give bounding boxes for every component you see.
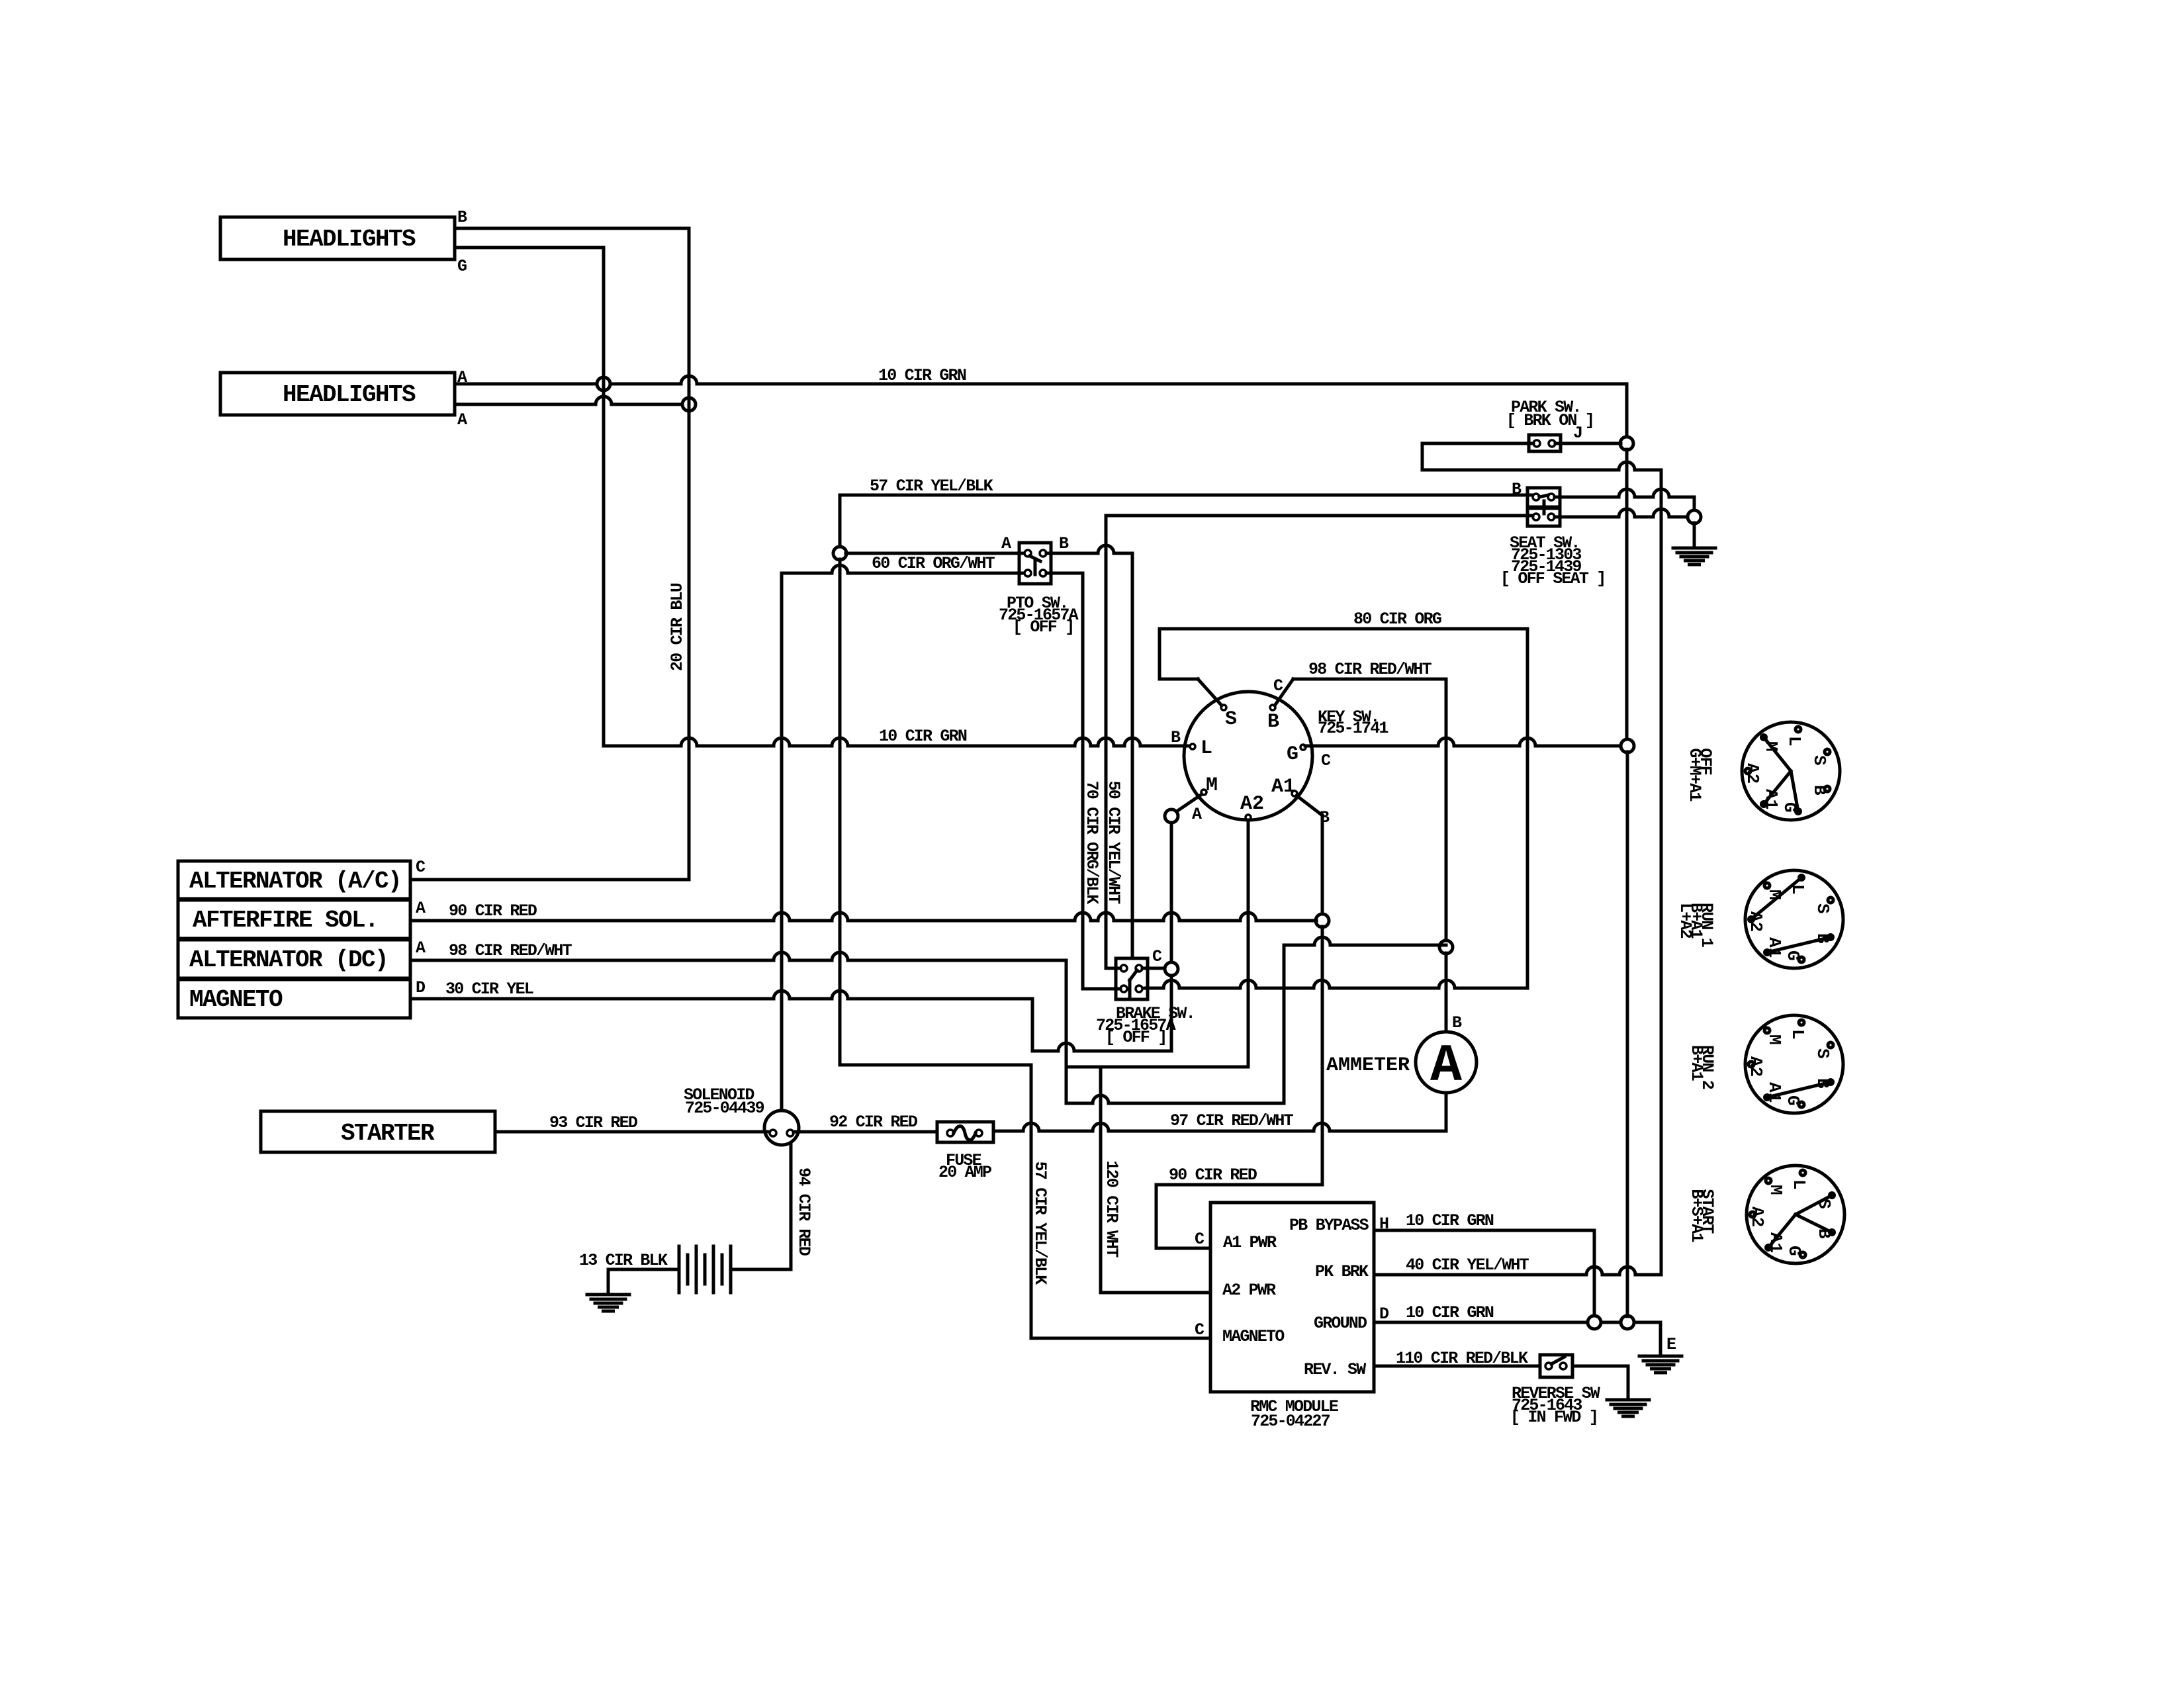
component box: ALTERNATOR (A/C) bbox=[178, 861, 410, 899]
svg-text:MAGNETO: MAGNETO bbox=[1222, 1327, 1285, 1346]
svg-text:725-04439: 725-04439 bbox=[685, 1099, 764, 1118]
svg-text:60 CIR ORG/WHT: 60 CIR ORG/WHT bbox=[872, 554, 995, 573]
svg-text:C: C bbox=[416, 858, 426, 877]
ground at seat switch bbox=[1673, 547, 1715, 550]
svg-text:B: B bbox=[1813, 933, 1833, 944]
svg-text:HEADLIGHTS: HEADLIGHTS bbox=[283, 381, 416, 408]
svg-text:10 CIR GRN: 10 CIR GRN bbox=[1406, 1303, 1494, 1322]
svg-text:50 CIR YEL/WHT: 50 CIR YEL/WHT bbox=[1104, 781, 1123, 905]
svg-text:S: S bbox=[1225, 708, 1237, 731]
wire vertical 30 leg up to node C bbox=[1170, 976, 1173, 1051]
svg-text:A: A bbox=[416, 938, 426, 958]
pin B of key switch bbox=[1270, 705, 1275, 710]
svg-text:C: C bbox=[1195, 1230, 1205, 1249]
label START position bbox=[1687, 1189, 1717, 1242]
svg-text:B: B bbox=[1813, 1078, 1833, 1089]
wire key A2 drop bbox=[1247, 820, 1250, 1067]
wire seat switch lower output bbox=[1555, 509, 1688, 517]
wire 80 CIR ORG run bbox=[1160, 627, 1527, 631]
wire 10 CIR GRN top run bbox=[455, 376, 1627, 384]
switch SEAT SW. glyph bbox=[1527, 488, 1560, 507]
svg-text:A1: A1 bbox=[1764, 937, 1784, 958]
key position diagram OFF bbox=[1742, 722, 1840, 820]
svg-text:L: L bbox=[1789, 1179, 1809, 1190]
svg-text:B+S+A1: B+S+A1 bbox=[1687, 1189, 1706, 1242]
wire park switch left leg bbox=[1422, 443, 1533, 470]
node park switch junction bbox=[1620, 437, 1633, 450]
component box: HEADLIGHTS (lower) bbox=[220, 373, 455, 415]
svg-text:B: B bbox=[1814, 1228, 1834, 1239]
wire PTO B output bbox=[1046, 545, 1132, 553]
wire vertical 20 CIR BLU bbox=[688, 228, 691, 880]
svg-text:B: B bbox=[457, 208, 467, 227]
component box RMC MODULE 725-04227 bbox=[1210, 1203, 1374, 1392]
svg-text:120 CIR WHT: 120 CIR WHT bbox=[1102, 1160, 1121, 1257]
wire 98 CIR RED/WHT run bbox=[410, 952, 1066, 960]
wire brake bottom-left pin west leg bbox=[1083, 573, 1120, 989]
svg-text:M: M bbox=[1766, 1185, 1786, 1195]
wire key B diagonal bbox=[1275, 679, 1293, 706]
node key B bus / alternator DC bbox=[1439, 940, 1453, 954]
wire battery positive lead bbox=[731, 1268, 791, 1271]
svg-text:70 CIR ORG/BLK: 70 CIR ORG/BLK bbox=[1082, 781, 1101, 905]
ground at reverse switch bbox=[1607, 1398, 1649, 1402]
node PTO input junction bbox=[833, 547, 846, 560]
svg-text:L+A2: L+A2 bbox=[1676, 903, 1695, 938]
wire key S diagonal bbox=[1198, 679, 1222, 706]
wire brake top-right pin to node C bbox=[1142, 967, 1165, 970]
svg-text:GROUND: GROUND bbox=[1314, 1314, 1367, 1333]
svg-text:C: C bbox=[1273, 676, 1283, 696]
svg-text:ALTERNATOR (A/C): ALTERNATOR (A/C) bbox=[189, 868, 401, 895]
svg-text:20 CIR BLU: 20 CIR BLU bbox=[668, 583, 687, 671]
component solenoid circle SOLENOID 725-04439 bbox=[764, 1111, 799, 1145]
wire brake NO to 80 riser (start interlock) bbox=[1145, 980, 1527, 988]
svg-text:L: L bbox=[1788, 884, 1807, 895]
node H junction on ground wire bbox=[1588, 1316, 1601, 1329]
svg-text:D: D bbox=[416, 978, 426, 997]
svg-text:A: A bbox=[416, 899, 426, 918]
wire vertical node A to brake C bbox=[1170, 823, 1173, 962]
node 10 CIR GRN ground bus junction bbox=[1621, 739, 1634, 753]
svg-text:92 CIR RED: 92 CIR RED bbox=[829, 1113, 918, 1132]
wire vertical ammeter bottom lead bbox=[1445, 1093, 1448, 1131]
wire vertical 30 drop bbox=[1031, 999, 1034, 1051]
svg-text:L: L bbox=[1201, 737, 1212, 760]
svg-text:B: B bbox=[1809, 785, 1829, 796]
svg-text:C: C bbox=[1195, 1320, 1205, 1340]
switch PTO SW. glyph bbox=[1019, 543, 1051, 584]
wire vertical 50 CIR YEL/WHT bbox=[1105, 516, 1108, 968]
svg-text:725-1741: 725-1741 bbox=[1318, 719, 1388, 738]
wire vertical park to 40 CIR YEL/WHT bbox=[1660, 470, 1663, 1275]
key position diagram RUN 2 bbox=[1745, 1015, 1843, 1113]
svg-text:G: G bbox=[1784, 1246, 1804, 1256]
svg-text:M: M bbox=[1206, 774, 1218, 797]
wire 120 into RMC A2 PWR pin bbox=[1101, 1291, 1210, 1295]
svg-text:M: M bbox=[1761, 741, 1781, 752]
svg-text:B: B bbox=[1512, 480, 1522, 499]
wire vertical A1 PWR drop bbox=[1155, 1185, 1158, 1248]
svg-text:REV. SW: REV. SW bbox=[1304, 1360, 1366, 1379]
svg-text:C: C bbox=[1321, 751, 1331, 770]
svg-text:98 CIR RED/WHT: 98 CIR RED/WHT bbox=[1308, 660, 1432, 679]
component box: ALTERNATOR (DC) bbox=[178, 940, 410, 978]
label 94 CIR RED (rotated) bbox=[794, 1167, 813, 1256]
svg-text:B: B bbox=[1059, 534, 1069, 553]
svg-text:A1: A1 bbox=[1764, 1082, 1784, 1103]
wire seat upper corner down bbox=[1693, 497, 1696, 511]
node A below key M bbox=[1165, 809, 1178, 823]
ground E symbol bbox=[1639, 1355, 1682, 1358]
svg-text:B: B bbox=[1171, 728, 1181, 747]
svg-text:B+A1: B+A1 bbox=[1687, 1045, 1706, 1081]
svg-text:A: A bbox=[457, 410, 467, 430]
wire park switch right leg bbox=[1555, 442, 1621, 445]
svg-text:MAGNETO: MAGNETO bbox=[189, 986, 283, 1013]
svg-text:A2: A2 bbox=[1240, 793, 1264, 815]
wire headlights lower-A to node bbox=[455, 396, 689, 404]
wire vertical headlights-G to 10 CIR GRN lower run bbox=[602, 248, 606, 746]
svg-text:G: G bbox=[1287, 743, 1298, 766]
svg-text:110 CIR RED/BLK: 110 CIR RED/BLK bbox=[1396, 1349, 1528, 1368]
wire 97 CIR RED/WHT fuse to ammeter bbox=[993, 1123, 1446, 1131]
svg-text:90 CIR RED: 90 CIR RED bbox=[449, 901, 537, 921]
component ammeter circle bbox=[1416, 1032, 1477, 1093]
svg-text:H: H bbox=[1379, 1214, 1388, 1234]
svg-text:[ OFF ]: [ OFF ] bbox=[1105, 1028, 1166, 1047]
wire REV. SW 110 CIR RED/BLK bbox=[1374, 1365, 1540, 1368]
wire 10 CIR GRN top corner down bbox=[1625, 384, 1629, 437]
wire 60 CIR ORG/WHT upper (node to PTO A) bbox=[846, 552, 1024, 555]
pin A1 of key switch bbox=[1292, 791, 1297, 796]
svg-text:90 CIR RED: 90 CIR RED bbox=[1169, 1165, 1257, 1185]
svg-text:57 CIR YEL/BLK: 57 CIR YEL/BLK bbox=[1030, 1162, 1050, 1285]
svg-text:A2: A2 bbox=[1747, 1207, 1767, 1227]
wire key S riser west+up bbox=[1160, 629, 1198, 679]
svg-text:G: G bbox=[1783, 950, 1803, 961]
svg-text:PB BYPASS: PB BYPASS bbox=[1289, 1216, 1369, 1235]
wire PK BRK 40 CIR YEL/WHT bbox=[1374, 1267, 1661, 1275]
wire 50 CIR YEL/WHT seat run bbox=[1106, 514, 1533, 518]
svg-text:S: S bbox=[1814, 1199, 1834, 1209]
svg-text:13 CIR BLK: 13 CIR BLK bbox=[579, 1251, 668, 1270]
wire seat ground drop bbox=[1693, 523, 1696, 548]
pin G of key switch bbox=[1300, 745, 1306, 750]
pin A2 of key switch bbox=[1246, 815, 1251, 820]
svg-text:A2: A2 bbox=[1743, 763, 1762, 784]
wire 93 CIR RED starter to solenoid bbox=[495, 1130, 770, 1134]
wire ground E drop bbox=[1659, 1322, 1662, 1356]
wire vertical 94 CIR RED bbox=[790, 1145, 793, 1269]
wire GROUND 10 CIR GRN run bbox=[1374, 1321, 1661, 1324]
label OFF position bbox=[1685, 748, 1715, 801]
wire vertical below PTO node (to brake area) bbox=[839, 559, 842, 1065]
wire 98 CIR RED/WHT key B run bbox=[1293, 678, 1446, 681]
wire PB BYPASS 10 CIR GRN bbox=[1374, 1230, 1594, 1316]
svg-text:[ IN FWD ]: [ IN FWD ] bbox=[1510, 1408, 1598, 1427]
wire A2 leg west bbox=[1066, 1066, 1248, 1069]
svg-text:A: A bbox=[1192, 805, 1202, 824]
component box: MAGNETO bbox=[178, 980, 410, 1018]
component battery bbox=[678, 1246, 681, 1293]
wire 60 CIR ORG/WHT lower (solenoid riser to PTO) bbox=[782, 565, 1024, 573]
switch REVERSE SW glyph bbox=[1540, 1355, 1572, 1377]
pin L of key switch bbox=[1190, 744, 1195, 749]
svg-text:S: S bbox=[1813, 1048, 1833, 1059]
svg-text:A1: A1 bbox=[1761, 789, 1781, 809]
wire vertical 57 CIR YEL/BLK to RMC bbox=[1030, 1065, 1033, 1338]
svg-text:S: S bbox=[1809, 755, 1829, 766]
pin S of key switch bbox=[1221, 705, 1226, 710]
svg-text:L: L bbox=[1784, 736, 1804, 747]
label 50 CIR YEL/WHT (rotated) bbox=[1104, 781, 1123, 905]
node 90 CIR RED junction bbox=[1316, 914, 1329, 927]
svg-text:98 CIR RED/WHT: 98 CIR RED/WHT bbox=[449, 941, 572, 960]
node ground bus junction on ground wire bbox=[1621, 1316, 1634, 1329]
wire key G to ground bus bbox=[1305, 738, 1621, 746]
wire park switch lower run bbox=[1422, 462, 1661, 470]
svg-text:A1: A1 bbox=[1766, 1232, 1786, 1253]
wire vertical solenoid coil riser bbox=[780, 573, 784, 1111]
svg-text:S: S bbox=[1813, 903, 1833, 914]
svg-text:L: L bbox=[1788, 1029, 1807, 1040]
svg-text:93 CIR RED: 93 CIR RED bbox=[549, 1113, 638, 1132]
node C at brake switch bbox=[1165, 962, 1178, 976]
wire PTO bottom-right to 70 riser bbox=[1046, 572, 1083, 575]
component box: HEADLIGHTS (upper) bbox=[220, 217, 455, 259]
wire reverse switch to ground bbox=[1572, 1366, 1628, 1400]
wire 98 to node on key B bus bbox=[1309, 937, 1446, 945]
ground at battery bbox=[587, 1293, 629, 1297]
svg-text:J: J bbox=[1573, 424, 1582, 443]
wire vertical ground bus upper bbox=[1625, 449, 1629, 740]
svg-text:STARTER: STARTER bbox=[341, 1120, 435, 1147]
wire 90 CIR RED run bbox=[410, 913, 1316, 921]
svg-text:A1 PWR: A1 PWR bbox=[1223, 1233, 1277, 1252]
component key switch circle KEY SW. 725-1741 bbox=[1184, 692, 1312, 820]
label 120 CIR WHT (rotated) bbox=[1102, 1160, 1121, 1257]
wire headlights-G drop bbox=[455, 246, 604, 250]
wire alternator A/C C to 20 CIR BLU bbox=[410, 878, 689, 882]
component fuse FUSE 20 AMP bbox=[937, 1122, 993, 1142]
svg-text:E: E bbox=[1666, 1335, 1676, 1354]
label RUN 1 position bbox=[1676, 903, 1716, 947]
wire 13 CIR BLK battery negative lead bbox=[608, 1269, 679, 1295]
svg-text:G: G bbox=[457, 257, 467, 276]
label 57 CIR YEL/BLK vertical (rotated) bbox=[1030, 1162, 1050, 1285]
wire vertical PTO B drop (to brake lever) bbox=[1131, 553, 1134, 958]
svg-text:725-04227: 725-04227 bbox=[1251, 1412, 1330, 1431]
svg-text:A: A bbox=[1430, 1036, 1463, 1097]
svg-text:M: M bbox=[1764, 1034, 1784, 1045]
label 20 CIR BLU (rotated) bbox=[668, 583, 687, 671]
key position diagram START bbox=[1747, 1165, 1844, 1263]
wire vertical 80 CIR ORG drop bbox=[1526, 629, 1529, 987]
wire 98 east leg bbox=[1066, 1095, 1284, 1103]
wire brake top-left pin west bbox=[1106, 967, 1120, 970]
node seat ground junction bbox=[1688, 510, 1701, 524]
wire vertical key B bus bbox=[1445, 679, 1448, 941]
component box: AFTERFIRE SOL. bbox=[178, 900, 410, 938]
wire 92 CIR RED solenoid to fuse bbox=[794, 1130, 937, 1134]
component box: STARTER bbox=[261, 1111, 495, 1152]
wire 10 CIR GRN to key L bbox=[604, 738, 1189, 746]
svg-text:20 AMP: 20 AMP bbox=[938, 1163, 991, 1182]
svg-text:10 CIR GRN: 10 CIR GRN bbox=[878, 366, 966, 385]
svg-text:C: C bbox=[1152, 947, 1162, 966]
svg-text:PK BRK: PK BRK bbox=[1315, 1262, 1369, 1281]
wire vertical 120 CIR WHT bbox=[1099, 1067, 1103, 1293]
svg-text:57 CIR YEL/BLK: 57 CIR YEL/BLK bbox=[870, 477, 993, 496]
svg-text:G: G bbox=[1783, 1095, 1803, 1106]
svg-text:HEADLIGHTS: HEADLIGHTS bbox=[283, 226, 416, 253]
svg-text:94 CIR RED: 94 CIR RED bbox=[794, 1167, 813, 1256]
wire 90 CIR RED lower leg bbox=[1156, 1183, 1322, 1187]
wire headlights-B to 20 CIR BLU riser bbox=[455, 227, 688, 230]
wire 30 CIR YEL run bbox=[410, 991, 1032, 999]
wire vertical 57 drop to PTO node bbox=[839, 495, 842, 553]
key position diagram RUN 1 bbox=[1745, 870, 1843, 968]
label 70 CIR ORG/BLK (rotated) bbox=[1082, 781, 1101, 905]
wire 98 riser to key B bus bbox=[1284, 945, 1309, 1103]
svg-text:B: B bbox=[1267, 711, 1279, 733]
svg-text:[ OFF ]: [ OFF ] bbox=[1013, 617, 1073, 637]
svg-text:A2: A2 bbox=[1746, 1056, 1766, 1077]
wire 57 into RMC MAGNETO pin bbox=[1031, 1337, 1210, 1340]
svg-text:B: B bbox=[1452, 1013, 1462, 1032]
svg-text:AMMETER: AMMETER bbox=[1326, 1054, 1410, 1077]
wire vertical key B bus to ammeter bbox=[1445, 953, 1448, 1032]
wire vertical A1 drop lower bbox=[1321, 927, 1324, 1185]
node headlights G junction bbox=[597, 377, 610, 390]
label RUN 2 position bbox=[1687, 1045, 1717, 1089]
wire key A1 diagonal bbox=[1297, 796, 1322, 815]
wire seat switch upper output bbox=[1555, 489, 1694, 497]
svg-text:G+M+A1: G+M+A1 bbox=[1685, 748, 1704, 801]
switch PARK SW. glyph bbox=[1529, 435, 1561, 451]
wire 57 CIR YEL/BLK horizontal run bbox=[840, 494, 1533, 497]
wire vertical A1 drop bbox=[1321, 815, 1324, 915]
svg-text:A2 PWR: A2 PWR bbox=[1222, 1281, 1276, 1300]
svg-text:ALTERNATOR (DC): ALTERNATOR (DC) bbox=[189, 946, 388, 974]
node on 20 CIR BLU riser bbox=[682, 398, 696, 411]
svg-text:M: M bbox=[1764, 890, 1784, 900]
wire 30 east leg to brake C bbox=[1032, 1043, 1171, 1051]
svg-text:97 CIR RED/WHT: 97 CIR RED/WHT bbox=[1170, 1111, 1294, 1130]
svg-text:10 CIR GRN: 10 CIR GRN bbox=[1406, 1211, 1494, 1230]
svg-text:D: D bbox=[1379, 1304, 1389, 1324]
svg-text:40 CIR YEL/WHT: 40 CIR YEL/WHT bbox=[1406, 1256, 1529, 1275]
wire vertical ground bus lower bbox=[1626, 752, 1629, 1316]
svg-text:A: A bbox=[1001, 534, 1011, 553]
pin M of key switch bbox=[1201, 790, 1206, 795]
svg-text:[ OFF SEAT ]: [ OFF SEAT ] bbox=[1500, 569, 1605, 588]
wire A1 PWR into RMC bbox=[1156, 1247, 1210, 1250]
svg-text:G: G bbox=[1780, 802, 1799, 813]
svg-text:A2: A2 bbox=[1746, 911, 1766, 932]
switch BRAKE SW. glyph bbox=[1116, 958, 1148, 999]
svg-text:30 CIR YEL: 30 CIR YEL bbox=[445, 980, 533, 999]
wire 57 jog east bbox=[840, 1064, 1031, 1067]
svg-text:80 CIR ORG: 80 CIR ORG bbox=[1353, 610, 1441, 629]
wire key M diagonal bbox=[1173, 794, 1202, 814]
wire vertical 98 drop bbox=[1065, 960, 1068, 1103]
svg-text:A1: A1 bbox=[1271, 776, 1295, 798]
svg-text:10 CIR GRN: 10 CIR GRN bbox=[879, 727, 967, 746]
svg-text:AFTERFIRE SOL.: AFTERFIRE SOL. bbox=[193, 907, 378, 934]
